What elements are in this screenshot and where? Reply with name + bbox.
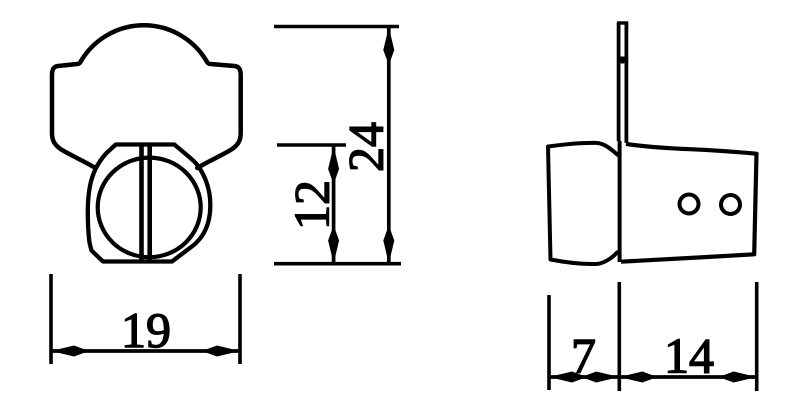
svg-text:19: 19 xyxy=(121,302,171,358)
dim 7/14 middle extension line xyxy=(617,282,621,391)
dim 7 right arrowhead xyxy=(585,372,619,383)
front view collar/ring outer silhouette xyxy=(88,145,211,262)
side view post right line xyxy=(625,23,629,143)
side view mount hole right xyxy=(721,195,740,214)
dim 24 dimension line xyxy=(387,27,391,264)
front view body outline xyxy=(52,25,241,168)
side view housing block outline xyxy=(621,144,757,262)
shared bottom extension line xyxy=(274,262,401,266)
dim 12 top arrowhead xyxy=(328,146,339,180)
side view post string hole pinch xyxy=(620,57,626,64)
dim 12 dimension line xyxy=(332,146,336,264)
dim 14 right arrowhead xyxy=(723,372,757,383)
dim 7/14 left extension line xyxy=(547,295,551,390)
dim 19 dimension line xyxy=(51,349,240,353)
side view post top cap xyxy=(617,21,628,24)
side view mount hole left xyxy=(680,195,699,214)
dim 7/14 right extension line xyxy=(755,282,759,391)
dim 7 left arrowhead xyxy=(549,372,583,383)
front view slot bar left line xyxy=(139,145,144,263)
dim 24 bottom arrowhead xyxy=(383,230,394,264)
front view inner circle xyxy=(98,158,201,258)
side view block divider line xyxy=(618,141,622,262)
dim 7/14 dimension line xyxy=(549,375,757,379)
front view slot bar right line xyxy=(147,145,152,263)
svg-text:12: 12 xyxy=(284,180,340,230)
dim 14 left arrowhead xyxy=(619,372,653,383)
dim 19 right extension line xyxy=(238,274,242,364)
dim 19 left arrowhead xyxy=(51,346,85,357)
dim 19 right arrowhead xyxy=(206,346,240,357)
dim 12 middle extension line xyxy=(277,143,346,147)
side view post left line xyxy=(617,23,621,141)
svg-text:24: 24 xyxy=(338,122,394,172)
dim 24 top extension line xyxy=(274,25,399,29)
svg-text:7: 7 xyxy=(571,328,596,384)
svg-text:14: 14 xyxy=(664,328,714,384)
dim 24 top arrowhead xyxy=(383,27,394,61)
dim 19 left extension line xyxy=(49,274,53,364)
side view button block outline xyxy=(548,143,618,264)
dim 12 bottom arrowhead xyxy=(328,230,339,264)
